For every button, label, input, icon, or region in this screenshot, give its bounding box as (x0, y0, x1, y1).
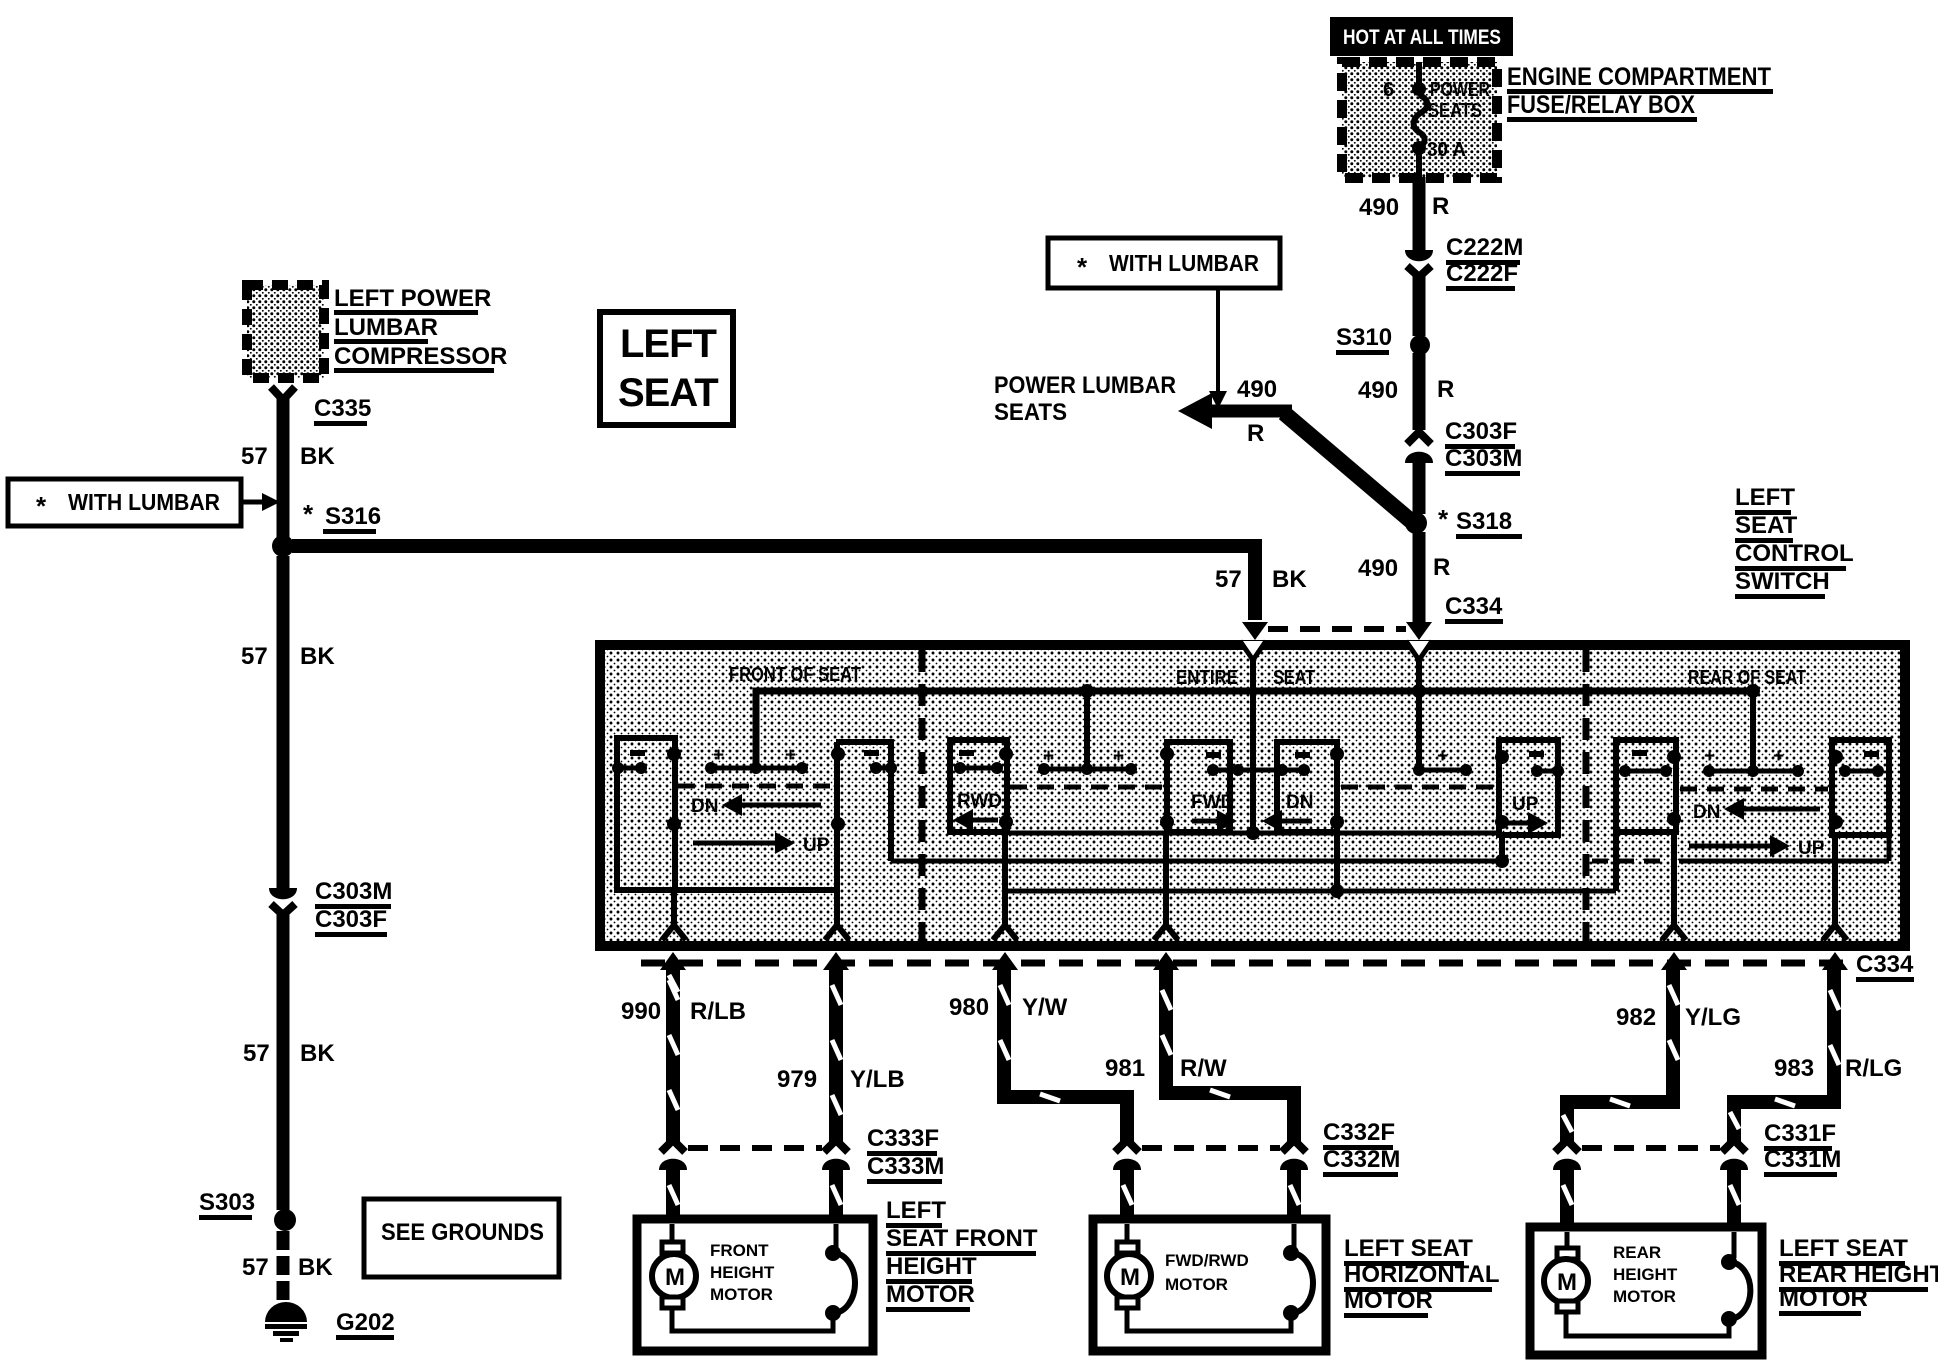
svg-text:BK: BK (300, 643, 335, 670)
junction bus dot 1 (1080, 684, 1094, 698)
svg-text:C303F: C303F (1445, 418, 1517, 445)
fuse 6 POWER SEATS 30A (1414, 95, 1428, 148)
svg-text:C334: C334 (1445, 593, 1503, 620)
switch cell FWD (1167, 742, 1230, 832)
wire pole 983 to pin (1832, 835, 1838, 924)
svg-text:REAR OF SEAT: REAR OF SEAT (1688, 667, 1806, 689)
arrow DN front (691, 794, 821, 817)
svg-text:ENGINE COMPARTMENT: ENGINE COMPARTMENT (1507, 63, 1771, 91)
wire pole front B to pin (834, 742, 840, 924)
svg-text:M: M (1557, 1269, 1577, 1296)
label WITH LUMBAR (left box) (8, 479, 241, 526)
wire z1 (1009, 831, 1499, 836)
switch cell UP entire (1499, 740, 1558, 835)
svg-text:WITH LUMBAR: WITH LUMBAR (68, 489, 220, 515)
svg-text:C335: C335 (314, 395, 371, 422)
wire pole front A to pin (671, 890, 677, 924)
svg-text:UP: UP (1798, 838, 1825, 859)
node fuse top (1412, 82, 1426, 96)
svg-text:LEFT SEAT: LEFT SEAT (1779, 1235, 1908, 1262)
svg-text:REAR HEIGHT: REAR HEIGHT (1779, 1261, 1938, 1288)
svg-text:LUMBAR: LUMBAR (334, 314, 438, 341)
arrow UP front (693, 832, 830, 856)
wire 990 connector to motor (666, 1166, 680, 1222)
junction bus dot 2 (1412, 684, 1426, 698)
svg-text:983: 983 (1774, 1055, 1814, 1082)
wire z3 entire (1005, 889, 1616, 894)
svg-text:57: 57 (1215, 566, 1242, 593)
wire stub to entire + pair (1084, 691, 1090, 769)
svg-text:HOT AT ALL TIMES: HOT AT ALL TIMES (1343, 26, 1501, 49)
connector C335 (271, 387, 295, 400)
+ contacts front (705, 745, 808, 774)
wire rear left edge to z3 (1613, 832, 1619, 891)
svg-text:982: 982 (1616, 1004, 1656, 1031)
svg-text:57: 57 (241, 643, 268, 670)
svg-text:FRONT OF SEAT: FRONT OF SEAT (729, 664, 861, 686)
label HOT AT ALL TIMES (1330, 17, 1513, 56)
svg-text:Y/W: Y/W (1022, 994, 1068, 1021)
arrow DN entire (1262, 810, 1312, 832)
mech link dashed rear (1680, 787, 1828, 792)
svg-text:*: * (1438, 504, 1449, 534)
svg-text:979: 979 (777, 1066, 817, 1093)
wire 57 BK C335 to S316 (277, 398, 290, 537)
svg-text:POWER: POWER (1430, 79, 1490, 101)
connector C333F/C333M pair left (659, 1140, 687, 1170)
svg-text:C303F: C303F (315, 906, 387, 933)
wire 57 BK S316 down (277, 556, 290, 888)
connector C333 dashed line (688, 1145, 822, 1151)
label C331F/C331M (1764, 1120, 1841, 1177)
wire 981 R/W (1166, 966, 1294, 1146)
svg-text:SWITCH: SWITCH (1735, 568, 1830, 595)
wire pole 982 to pin (1671, 832, 1677, 924)
wire 490 R C222 to S310 (1413, 275, 1426, 336)
arrow from WITH LUMBAR box to wire (1216, 288, 1220, 393)
node fuse bottom (1412, 141, 1426, 155)
svg-text:C331M: C331M (1764, 1146, 1841, 1173)
switch cell DN entire (1277, 742, 1337, 832)
mech link dashed entire (1010, 785, 1163, 790)
svg-text:C331F: C331F (1764, 1120, 1836, 1147)
motor M1 front height motor (637, 1219, 873, 1351)
arrow from left WITH LUMBAR box to S316 (241, 500, 264, 505)
svg-text:990: 990 (621, 998, 661, 1025)
arrow RWD (953, 809, 998, 831)
splice S303 (274, 1209, 296, 1231)
svg-text:HEIGHT: HEIGHT (1613, 1265, 1678, 1284)
svg-text:CONTROL: CONTROL (1735, 540, 1854, 567)
label C334 (1445, 593, 1503, 624)
svg-text:SEATS: SEATS (1428, 100, 1482, 122)
svg-text:C222F: C222F (1446, 260, 1518, 287)
svg-text:490: 490 (1358, 377, 1398, 404)
svg-text:WITH LUMBAR: WITH LUMBAR (1109, 250, 1259, 276)
connector C303F/C303M (1405, 432, 1433, 463)
wire slashes (white marks) (669, 975, 1839, 1205)
connector C332F/C332M pair right (1280, 1140, 1308, 1170)
connector C331F/C331M pair left (1553, 1140, 1581, 1170)
arrow UP entire (1506, 812, 1548, 834)
switch cell front A (617, 738, 675, 890)
wire stub 490 to entire + pair 2 (1416, 657, 1422, 770)
svg-text:+: + (1043, 746, 1054, 767)
svg-text:C334: C334 (1856, 951, 1914, 978)
svg-text:S303: S303 (199, 1189, 255, 1216)
splice S316 (272, 535, 294, 557)
svg-text:R/LB: R/LB (690, 998, 746, 1025)
svg-text:MOTOR: MOTOR (710, 1285, 773, 1304)
diagonal wire to power lumbar seats (1284, 413, 1411, 521)
svg-text:HEIGHT: HEIGHT (710, 1263, 775, 1282)
label C333F/C333M (867, 1125, 944, 1184)
svg-text:*: * (303, 499, 314, 529)
svg-text:FWD/RWD: FWD/RWD (1165, 1251, 1249, 1270)
wire 57 BK long horizontal to switch (292, 546, 1255, 620)
svg-text:S316: S316 (325, 503, 381, 530)
connector C303M/C303F (left) (269, 888, 297, 915)
connector C331F/C331M pair right (1720, 1140, 1748, 1170)
svg-text:UP: UP (1512, 794, 1539, 815)
switch cell RWD (950, 740, 1007, 832)
wire rear z2 (1679, 859, 1889, 864)
svg-text:SEAT: SEAT (1735, 512, 1798, 539)
svg-text:C332F: C332F (1323, 1119, 1395, 1146)
svg-text:S318: S318 (1456, 508, 1512, 535)
switch cell rear UP (1832, 740, 1889, 835)
svg-text:57: 57 (242, 1254, 269, 1281)
svg-text:BK: BK (300, 443, 335, 470)
svg-text:C303M: C303M (315, 878, 392, 905)
wire DN pole to z3 (1334, 832, 1340, 891)
connector C332 dashed line (1142, 1145, 1280, 1151)
svg-text:981: 981 (1105, 1055, 1145, 1082)
svg-text:SEE GROUNDS: SEE GROUNDS (381, 1219, 544, 1246)
svg-text:+: + (785, 745, 796, 766)
svg-text:C303M: C303M (1445, 445, 1522, 472)
pin notch 57 BK into switch (1240, 641, 1266, 660)
svg-text:SEAT FRONT: SEAT FRONT (886, 1225, 1038, 1252)
label LEFT SEAT FRONT HEIGHT MOTOR (886, 1197, 1038, 1312)
switch cell front B (836, 742, 891, 861)
svg-text:Y/LB: Y/LB (850, 1066, 905, 1093)
svg-text:BK: BK (1272, 566, 1307, 593)
svg-text:LEFT: LEFT (886, 1197, 946, 1224)
+ contacts entire pair 2 (1413, 746, 1472, 776)
svg-text:UP: UP (803, 835, 830, 856)
svg-text:SEATS: SEATS (994, 399, 1067, 426)
svg-text:+: + (1113, 746, 1124, 767)
label WITH LUMBAR (center box) (1048, 238, 1280, 288)
svg-text:POWER LUMBAR: POWER LUMBAR (994, 372, 1176, 399)
svg-text:*: * (36, 491, 47, 521)
svg-text:M: M (1120, 1264, 1140, 1291)
svg-text:FRONT: FRONT (710, 1241, 769, 1260)
section divider dashed 1 (919, 650, 926, 941)
svg-text:R: R (1433, 554, 1450, 581)
svg-text:+: + (1773, 746, 1784, 767)
wire power lumbar seats arrow (1198, 405, 1292, 418)
svg-text:HEIGHT: HEIGHT (886, 1253, 977, 1280)
left seat control switch box (600, 645, 1905, 946)
wire 980 connector to motor (1120, 1166, 1134, 1222)
label LEFT SEAT HORIZONTAL MOTOR (1344, 1235, 1500, 1318)
svg-text:M: M (665, 1264, 685, 1291)
wire stub to rear + pair (1750, 691, 1756, 771)
label LEFT POWER LUMBAR COMPRESSOR (334, 285, 507, 373)
junction bus dot 3 (1746, 684, 1760, 698)
svg-text:G202: G202 (336, 1309, 395, 1336)
wire 979 Y/LB (829, 966, 843, 1143)
wire 490 R fuse to C222 (1416, 153, 1422, 180)
splice S318 (1405, 512, 1427, 534)
left power lumbar compressor (dashed box) (247, 285, 324, 378)
svg-text:REAR: REAR (1613, 1243, 1661, 1262)
svg-text:DN: DN (1286, 792, 1313, 813)
label C222M/C222F (1446, 234, 1523, 291)
svg-text:SEAT: SEAT (618, 371, 718, 415)
label C332F/C332M (1323, 1119, 1400, 1177)
arrow UP rear (1689, 835, 1825, 859)
svg-text:FUSE/RELAY BOX: FUSE/RELAY BOX (1507, 91, 1695, 119)
svg-text:Y/LG: Y/LG (1685, 1004, 1741, 1031)
connector C334 top: arrowhead 490 R (1406, 622, 1432, 640)
svg-text:C333F: C333F (867, 1125, 939, 1152)
svg-text:R: R (1247, 420, 1264, 447)
wire front z3 (617, 887, 837, 893)
svg-text:490: 490 (1358, 555, 1398, 582)
mech link dashed front (678, 784, 833, 789)
wire 982 Y/LG (1567, 966, 1673, 1143)
svg-text:490: 490 (1237, 376, 1277, 403)
svg-text:SEAT: SEAT (1273, 667, 1315, 689)
switch cell rear DN (1616, 740, 1676, 832)
wire central 57 pole (1250, 657, 1256, 833)
svg-text:LEFT: LEFT (620, 322, 717, 366)
svg-text:MOTOR: MOTOR (1613, 1287, 1676, 1306)
label C303F/C303M (1445, 418, 1522, 476)
wire pole FWD to pin (1163, 832, 1169, 924)
wire 981 connector to motor (1287, 1166, 1301, 1222)
connector C331 dashed line (1582, 1145, 1720, 1151)
wire 983 R/LG (1734, 966, 1834, 1143)
+ contacts rear pair (1703, 746, 1804, 777)
svg-text:FWD: FWD (1191, 792, 1234, 813)
svg-text:+: + (713, 745, 724, 766)
svg-text:HORIZONTAL: HORIZONTAL (1344, 1261, 1500, 1288)
svg-text:R/LG: R/LG (1845, 1055, 1902, 1082)
splice S310 (1410, 335, 1430, 355)
connector C222M/C222F (1405, 250, 1433, 277)
motor M2 fwd/rwd motor (1093, 1219, 1326, 1351)
svg-text:6: 6 (1383, 79, 1394, 101)
connector C334 arrowheads up (660, 952, 686, 970)
svg-text:C222M: C222M (1446, 234, 1523, 261)
wire 490 R C303 to S318 (1413, 460, 1426, 514)
svg-text:MOTOR: MOTOR (1165, 1275, 1228, 1294)
arrow DN rear (1724, 798, 1820, 820)
motor M3 rear height motor (1530, 1227, 1762, 1355)
wire 57 BK S303 to G202 (277, 1231, 290, 1305)
connector C332F/C332M pair left (1113, 1140, 1141, 1170)
wire 980 Y/W (1004, 966, 1127, 1143)
svg-text:COMPRESSOR: COMPRESSOR (334, 343, 507, 370)
svg-text:LEFT: LEFT (1735, 484, 1795, 511)
wire 990 R/LB (666, 966, 680, 1143)
svg-text:R: R (1437, 376, 1454, 403)
connector C333F/C333M pair right (822, 1140, 850, 1170)
svg-text:DN: DN (1693, 802, 1720, 823)
svg-text:980: 980 (949, 994, 989, 1021)
wire 983 connector to motor (1727, 1166, 1741, 1230)
svg-text:R: R (1432, 193, 1449, 220)
wire UP pole to z2 (1499, 835, 1505, 861)
wire internal feed bus (756, 691, 1755, 766)
label LEFT SEAT box (600, 312, 733, 425)
label ENGINE COMPARTMENT FUSE/RELAY BOX (1507, 63, 1773, 122)
svg-text:C333M: C333M (867, 1153, 944, 1180)
wire pole RWD to pin (1002, 832, 1008, 924)
svg-text:BK: BK (298, 1254, 333, 1281)
svg-text:RWD: RWD (957, 791, 1002, 812)
svg-text:MOTOR: MOTOR (1779, 1285, 1868, 1312)
engine compartment fuse/relay box (dashed) (1342, 62, 1497, 178)
label LEFT SEAT REAR HEIGHT MOTOR (1779, 1235, 1938, 1316)
ground G202 (265, 1302, 307, 1342)
wire 982 connector to motor (1560, 1166, 1574, 1230)
svg-text:30 A: 30 A (1427, 139, 1466, 161)
label LEFT SEAT CONTROL SWITCH (1735, 484, 1854, 599)
svg-text:BK: BK (300, 1040, 335, 1067)
label SEE GROUNDS box (364, 1199, 559, 1277)
svg-text:S310: S310 (1336, 324, 1392, 351)
svg-text:C332M: C332M (1323, 1146, 1400, 1173)
svg-text:*: * (1077, 252, 1088, 282)
pin notch 490 R into switch (1406, 641, 1432, 660)
contacts to central pole (1213, 768, 1304, 773)
svg-text:DN: DN (691, 796, 718, 817)
svg-text:+: + (1704, 746, 1715, 767)
section divider dashed 2 (1583, 650, 1590, 941)
pin chevrons at box bottom (662, 925, 686, 940)
svg-text:490: 490 (1359, 194, 1399, 221)
wire 490 R S310 to C303 (1413, 353, 1426, 430)
svg-text:+: + (1437, 746, 1448, 767)
wire 979 connector to motor (829, 1166, 843, 1222)
svg-text:MOTOR: MOTOR (886, 1281, 975, 1308)
+ contacts entire pair 1 (1038, 746, 1137, 775)
svg-text:LEFT POWER: LEFT POWER (334, 285, 491, 312)
connector C334 bottom dashed line (641, 960, 1855, 967)
svg-text:ENTIRE: ENTIRE (1176, 667, 1238, 689)
svg-text:LEFT SEAT: LEFT SEAT (1344, 1235, 1473, 1262)
svg-text:57: 57 (243, 1040, 270, 1067)
wire from box top to fuse (1416, 62, 1422, 90)
svg-text:R/W: R/W (1180, 1055, 1227, 1082)
wire z2 link (891, 859, 1502, 864)
svg-text:MOTOR: MOTOR (1344, 1287, 1433, 1314)
connector C334 dashed line (1268, 626, 1406, 632)
connector C334 top: arrowhead 57 BK (1242, 622, 1268, 640)
wire 490 R S318 to C334 (1413, 532, 1426, 622)
label C334 bottom (1856, 951, 1914, 982)
wire 57 BK C303 to S303 (277, 912, 290, 1210)
arrow FWD (1192, 810, 1237, 832)
svg-text:57: 57 (241, 443, 268, 470)
